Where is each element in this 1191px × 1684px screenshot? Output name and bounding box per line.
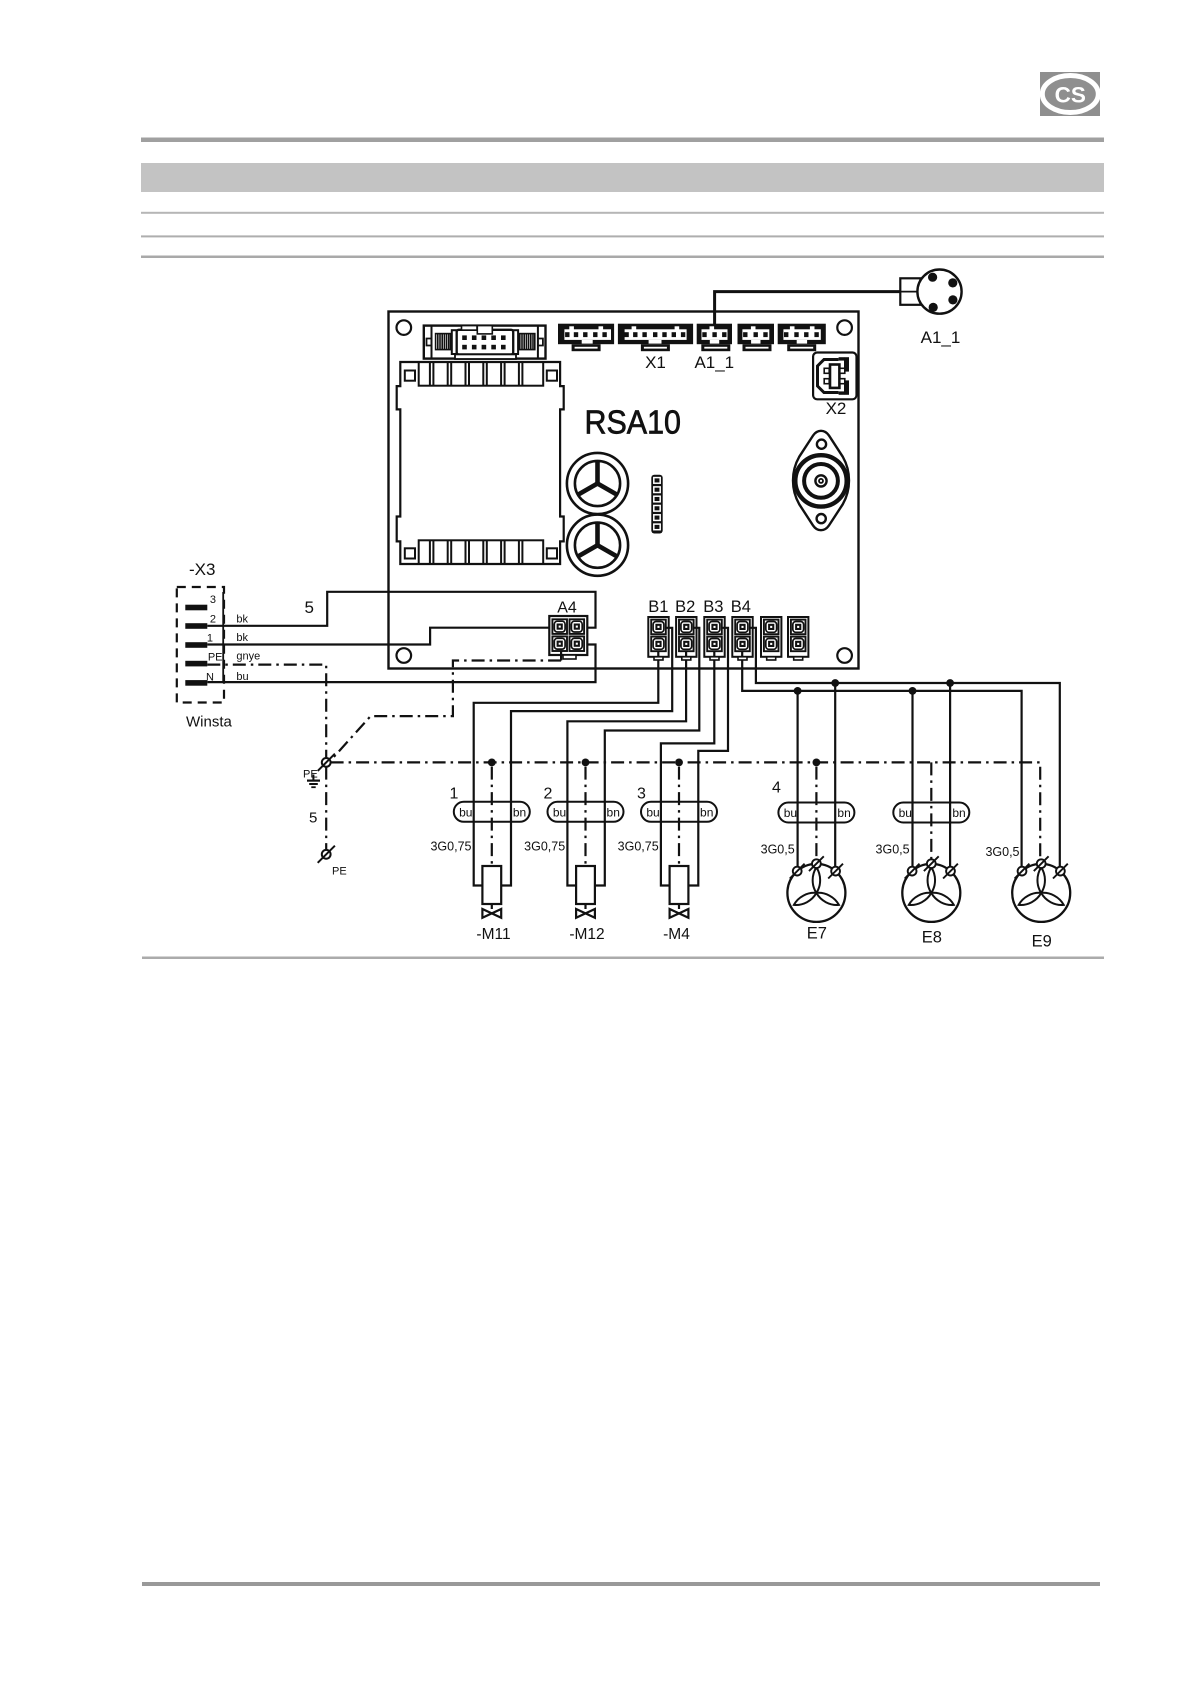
svg-text:N: N — [206, 672, 214, 684]
svg-text:bu: bu — [236, 671, 248, 683]
svg-text:bu: bu — [459, 805, 472, 819]
svg-text:2: 2 — [210, 614, 216, 626]
svg-text:3G0,5: 3G0,5 — [761, 843, 795, 857]
svg-text:B3: B3 — [703, 598, 723, 616]
svg-text:2: 2 — [544, 786, 553, 803]
svg-text:Winsta: Winsta — [186, 714, 233, 731]
svg-text:B1: B1 — [648, 598, 668, 616]
svg-text:3G0,5: 3G0,5 — [876, 843, 910, 857]
svg-text:bu: bu — [553, 805, 566, 819]
svg-text:E9: E9 — [1032, 933, 1052, 951]
svg-text:1: 1 — [450, 786, 459, 803]
svg-text:bn: bn — [513, 805, 526, 819]
svg-text:PE: PE — [332, 866, 347, 878]
svg-text:E7: E7 — [807, 925, 827, 943]
svg-text:X1: X1 — [645, 353, 666, 372]
svg-text:E8: E8 — [922, 929, 942, 947]
svg-text:bn: bn — [700, 805, 713, 819]
svg-text:CS: CS — [1055, 83, 1086, 108]
svg-text:3G0,5: 3G0,5 — [985, 845, 1019, 859]
svg-text:bn: bn — [837, 806, 850, 820]
svg-text:-M4: -M4 — [663, 926, 690, 943]
svg-text:-M11: -M11 — [476, 926, 510, 943]
svg-text:A1_1: A1_1 — [921, 328, 961, 347]
svg-text:PE: PE — [303, 769, 318, 781]
svg-text:bn: bn — [952, 806, 965, 820]
svg-text:X2: X2 — [826, 399, 847, 418]
svg-text:3G0,75: 3G0,75 — [618, 839, 659, 853]
svg-text:5: 5 — [309, 810, 317, 827]
svg-text:A1_1: A1_1 — [694, 353, 734, 372]
svg-text:B2: B2 — [675, 598, 695, 616]
svg-text:-X3: -X3 — [189, 560, 215, 579]
svg-text:A4: A4 — [557, 600, 577, 617]
svg-text:3: 3 — [210, 594, 216, 606]
svg-text:bn: bn — [607, 805, 620, 819]
svg-text:gnye: gnye — [236, 651, 260, 663]
svg-text:3: 3 — [637, 786, 646, 803]
svg-text:1: 1 — [207, 633, 213, 645]
svg-text:5: 5 — [305, 598, 314, 617]
svg-text:3G0,75: 3G0,75 — [430, 839, 471, 853]
svg-text:bu: bu — [646, 805, 659, 819]
svg-text:bk: bk — [236, 632, 248, 644]
svg-text:bk: bk — [236, 614, 248, 626]
svg-text:3G0,75: 3G0,75 — [524, 839, 565, 853]
svg-text:B4: B4 — [731, 598, 751, 616]
svg-text:PE: PE — [208, 652, 223, 664]
svg-text:bu: bu — [784, 806, 797, 820]
svg-text:4: 4 — [772, 780, 781, 797]
svg-text:-M12: -M12 — [569, 926, 604, 943]
svg-text:bu: bu — [899, 806, 912, 820]
svg-text:RSA10: RSA10 — [585, 404, 682, 441]
